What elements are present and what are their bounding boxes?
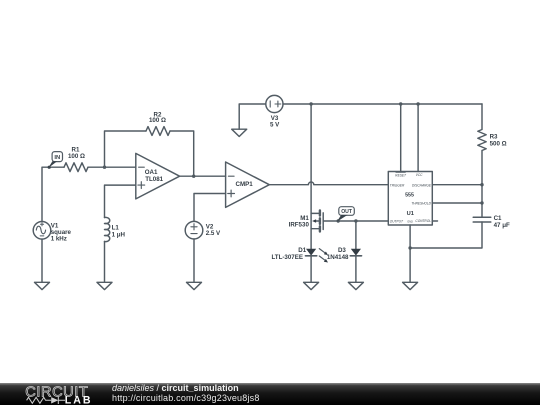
voltage source V3: [266, 95, 283, 128]
svg-text:OA1: OA1: [145, 169, 158, 176]
svg-text:1 μH: 1 μH: [112, 231, 126, 238]
svg-text:TRIGGER: TRIGGER: [390, 183, 405, 187]
junction OUT flag / gate: [337, 219, 340, 222]
svg-text:THRESHOLD: THRESHOLD: [411, 202, 431, 206]
voltage source V2: [185, 221, 221, 239]
svg-text:555: 555: [405, 192, 414, 198]
wire V1 to ground: [41, 239, 43, 282]
svg-text:100 Ω: 100 Ω: [149, 117, 166, 124]
wire CONTROL stub: [432, 220, 437, 222]
wire V3 minus to ground: [239, 104, 266, 129]
wire CMP1 output to 555 TRIGGER (hop over drain wire): [269, 182, 388, 185]
wire VCC pin to rail: [417, 104, 419, 172]
junction GND/C1: [408, 246, 411, 249]
svg-text:RESET: RESET: [395, 173, 407, 177]
junction rail/RESET: [399, 102, 402, 105]
svg-text:IN: IN: [54, 155, 60, 161]
CircuitLab logo: [0, 383, 110, 405]
ground (L1): [97, 282, 112, 289]
junction rail/VCC: [416, 102, 419, 105]
wire CMP1 plus to V2: [194, 194, 226, 222]
junction D3 branch: [354, 219, 357, 222]
IC U1 555 timer: [388, 172, 432, 226]
wire +5V rail: [283, 103, 482, 105]
diode D3 1N4148: [327, 221, 362, 261]
svg-text:IRF530: IRF530: [289, 222, 310, 229]
svg-text:TL081: TL081: [145, 176, 163, 183]
ground (V1): [35, 282, 50, 289]
junction node B (OA1 out / R2): [192, 175, 195, 178]
wire V2 to ground: [193, 239, 195, 282]
junction R3/THRESHOLD: [480, 201, 483, 204]
resistor R1: [64, 147, 88, 172]
diode D1 LED LTL-307EE: [271, 247, 328, 263]
svg-text:LAB: LAB: [65, 394, 93, 405]
wire RESET pin to rail: [400, 104, 402, 172]
svg-text:VCC: VCC: [416, 173, 423, 177]
svg-text:OUTPUT: OUTPUT: [390, 219, 404, 223]
transistor M1 (NMOS IRF530): [289, 104, 339, 249]
svg-text:47 μF: 47 μF: [494, 222, 510, 229]
op-amp OA1: [136, 153, 180, 199]
svg-text:CONTROL: CONTROL: [415, 219, 431, 223]
svg-text:DISCHARGE: DISCHARGE: [412, 183, 432, 187]
wire OA1 plus to L1: [105, 185, 136, 217]
wire 555 GND pin to ground: [409, 225, 411, 282]
svg-text:2.5 V: 2.5 V: [206, 230, 221, 237]
junction R3/DISCHARGE: [480, 183, 483, 186]
ground (555 GND): [403, 282, 418, 289]
resistor R3: [478, 104, 507, 217]
wire D3 to ground: [355, 257, 357, 283]
inductor L1: [105, 217, 126, 241]
svg-text:OUT: OUT: [341, 209, 353, 215]
junction node A (R1/R2/OA1-): [103, 166, 106, 169]
wire D1 to ground: [310, 257, 312, 283]
wire R2 feedback branch: [105, 131, 194, 176]
svg-text:CMP1: CMP1: [236, 181, 254, 188]
junction rail/M1 drain: [309, 102, 312, 105]
wire THRESHOLD to C1 node: [432, 202, 482, 204]
wire DISCHARGE to R3 node: [432, 184, 482, 186]
ground (V3): [232, 129, 247, 136]
node flag IN: [48, 152, 63, 169]
wire L1 to ground: [104, 242, 106, 283]
capacitor C1: [473, 215, 510, 229]
footer bar: [0, 383, 540, 405]
wire OA1 output to CMP1 minus: [180, 175, 226, 177]
wire C1 bottom to GND net: [410, 222, 482, 248]
svg-text:1 kHz: 1 kHz: [51, 235, 67, 242]
wire input net V1 to OA1 minus: [42, 167, 136, 221]
ground (D3): [348, 282, 363, 289]
voltage source V1: [33, 222, 71, 243]
resistor R2: [146, 111, 170, 135]
svg-text:100 Ω: 100 Ω: [68, 153, 85, 160]
svg-text:GND: GND: [407, 221, 413, 224]
svg-text:1N4148: 1N4148: [327, 254, 349, 261]
svg-text:5 V: 5 V: [270, 121, 280, 128]
wire 555 OUTPUT net: [338, 220, 388, 222]
comparator CMP1: [226, 162, 270, 207]
svg-text:U1: U1: [407, 211, 414, 217]
svg-text:LTL-307EE: LTL-307EE: [271, 254, 303, 261]
ground (D1): [304, 282, 319, 289]
node flag OUT: [337, 207, 355, 222]
ground (V2): [187, 282, 202, 289]
svg-text:500 Ω: 500 Ω: [490, 141, 507, 148]
